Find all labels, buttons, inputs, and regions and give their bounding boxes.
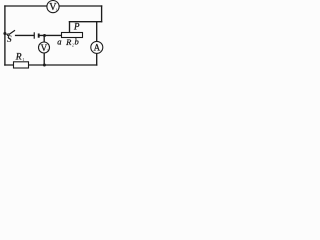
battery cell: short thick plate [38,34,40,38]
wire left [4,6,6,65]
wire ammeter upper [96,22,98,42]
svg-text:2: 2 [47,49,49,53]
wire voltmeter2 upper stub [43,35,45,42]
svg-text:1: 1 [56,8,58,13]
wire bottom [5,64,97,66]
svg-text:P: P [73,21,80,31]
battery cell: long plate [33,32,35,38]
svg-text:R: R [15,52,22,62]
node junction bottom wire [43,64,46,67]
svg-text:1: 1 [22,57,24,62]
svg-text:S: S [7,34,12,44]
wire top [5,5,102,7]
svg-text:b: b [75,37,79,47]
node junction middle wire [43,34,46,37]
svg-text:A: A [94,43,101,53]
wire middle right [40,34,62,36]
rheostat R2 box [62,33,83,38]
wire middle left [16,34,34,36]
wire slider arm horizontal [70,21,102,23]
voltmeter V2 [39,42,50,53]
svg-text:a: a [57,36,61,46]
wire ammeter lower [96,53,98,65]
node junction on left wire [3,32,6,35]
voltmeter V1 [47,1,59,14]
wire voltmeter2 lower stub [43,53,45,65]
resistor R1 box [14,62,29,68]
ammeter A [91,41,103,53]
switch S [5,30,15,35]
wire right upper [101,6,103,22]
wire slider drop [69,22,71,33]
